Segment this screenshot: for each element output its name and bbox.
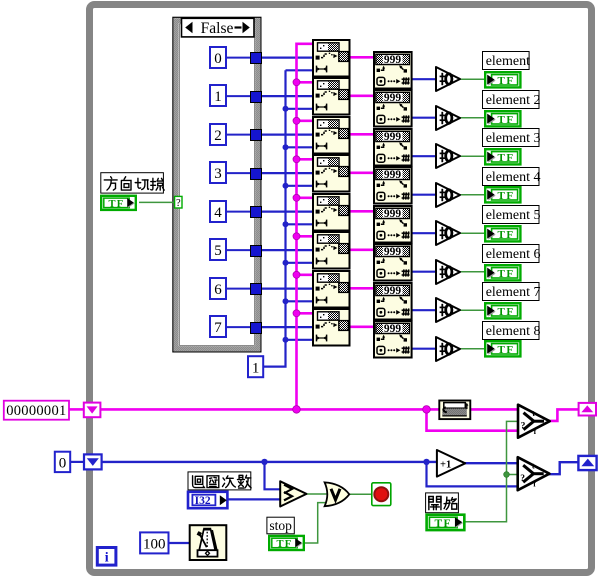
svg-text:element 6: element 6 bbox=[486, 247, 541, 262]
svg-text:2: 2 bbox=[214, 128, 222, 144]
svg-text:100: 100 bbox=[143, 537, 166, 553]
svg-text:7: 7 bbox=[214, 320, 222, 336]
svg-text:i: i bbox=[105, 551, 109, 566]
svg-text:element 8: element 8 bbox=[486, 324, 541, 339]
svg-text:element 4: element 4 bbox=[486, 170, 541, 185]
svg-text:element 2: element 2 bbox=[486, 93, 541, 108]
svg-text:element 7: element 7 bbox=[486, 285, 541, 300]
svg-text:I32: I32 bbox=[195, 495, 211, 507]
svg-text:6: 6 bbox=[214, 282, 222, 298]
svg-text:element 3: element 3 bbox=[486, 131, 541, 146]
svg-text:0: 0 bbox=[214, 51, 222, 67]
svg-text:1: 1 bbox=[252, 360, 260, 376]
svg-text:00000001: 00000001 bbox=[6, 403, 66, 419]
svg-text:stop: stop bbox=[269, 518, 292, 533]
svg-text:3: 3 bbox=[214, 166, 222, 182]
svg-text:False: False bbox=[201, 20, 234, 37]
svg-text:5: 5 bbox=[214, 243, 222, 259]
svg-text:?: ? bbox=[176, 198, 181, 209]
svg-text:element: element bbox=[486, 54, 530, 69]
svg-text:1: 1 bbox=[214, 89, 222, 105]
svg-text:0: 0 bbox=[59, 456, 67, 472]
svg-text:element 5: element 5 bbox=[486, 208, 541, 223]
svg-text:4: 4 bbox=[214, 205, 222, 221]
svg-text:+1: +1 bbox=[440, 459, 451, 470]
